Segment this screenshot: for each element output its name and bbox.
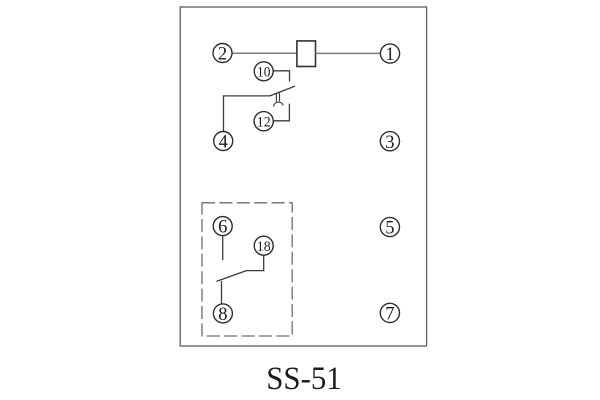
terminal 10: [254, 62, 273, 81]
terminal 4: [214, 132, 233, 153]
wire: terminal 4 riser and horizontal to contact pivot: [224, 96, 271, 131]
wire: terminal 18 drop and horizontal to blade: [246, 255, 264, 270]
relay case outline: [180, 7, 426, 346]
svg-text:1: 1: [385, 45, 394, 65]
terminal 12: [254, 112, 273, 131]
terminal 1: [380, 44, 399, 65]
svg-text:12: 12: [257, 114, 271, 130]
delay symbol tick 2: [279, 92, 281, 101]
auxiliary contact dashed enclosure: [202, 203, 292, 336]
svg-text:4: 4: [219, 133, 228, 153]
svg-text:7: 7: [385, 305, 394, 325]
wire: terminal 12 stub up: [273, 104, 289, 121]
svg-text:2: 2: [218, 45, 227, 65]
wire: blade pivot to terminal 8: [221, 281, 223, 304]
delay symbol tick 1: [275, 93, 277, 102]
svg-text:SS-51: SS-51: [266, 361, 342, 397]
coil (time-relay element): [297, 41, 316, 67]
terminal 8: [213, 304, 232, 325]
terminal 5: [380, 217, 399, 238]
delay symbol arc: [274, 102, 284, 106]
svg-text:5: 5: [385, 219, 394, 239]
svg-text:6: 6: [218, 218, 227, 238]
terminal 2: [213, 44, 232, 65]
svg-text:10: 10: [257, 65, 270, 81]
contact blade (6-8): [216, 271, 246, 282]
wire: terminal 2 to coil: [232, 52, 297, 54]
wire: terminal 10 stub down: [273, 71, 289, 82]
delayed contact blade (10-12): [270, 86, 295, 96]
svg-text:3: 3: [385, 133, 394, 153]
svg-text:8: 8: [218, 305, 227, 325]
wire: coil to terminal 1: [316, 52, 381, 54]
terminal 6: [213, 217, 232, 238]
wire: terminal 6 stub down: [222, 236, 224, 261]
terminal 18: [254, 236, 273, 255]
terminal 7: [380, 303, 399, 324]
svg-text:18: 18: [257, 239, 271, 255]
terminal 3: [380, 132, 399, 153]
